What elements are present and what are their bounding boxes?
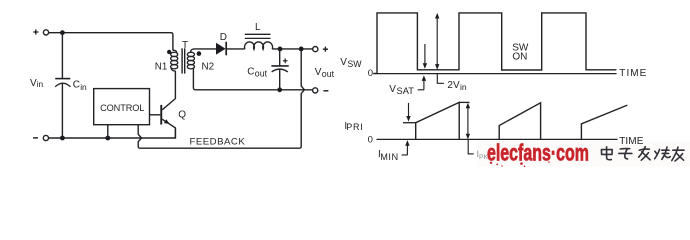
svg-text:TIME: TIME — [619, 68, 647, 79]
arrow VSAT lower — [423, 80, 425, 90]
svg-text:L: L — [255, 22, 261, 33]
svg-text:FEEDBACK: FEEDBACK — [190, 137, 246, 148]
wire Cin top — [61, 33, 63, 79]
arrow VSAT upper — [424, 44, 426, 65]
arrow IPK span — [467, 107, 469, 136]
transformer secondary N2 winding — [187, 52, 194, 69]
watermark band — [478, 141, 690, 167]
arrow 2VIN — [436, 17, 438, 67]
svg-text:C: C — [247, 66, 254, 77]
svg-text:V: V — [340, 57, 347, 68]
axis IPRI time — [377, 138, 618, 140]
control block U1 — [94, 89, 150, 125]
wire bottom rail — [49, 128, 176, 138]
logo chinese char zi — [619, 149, 632, 159]
node junction top of Cin — [60, 30, 65, 35]
input minus terminal — [33, 137, 38, 139]
output plus terminal — [313, 47, 318, 52]
reference line peak level — [459, 101, 469, 103]
svg-text:ON: ON — [512, 52, 527, 63]
leader VSAT — [418, 89, 424, 91]
svg-text:D: D — [220, 32, 227, 43]
arrow IMIN upper — [408, 103, 410, 117]
waveform VSW trace — [373, 13, 616, 74]
wire feedback with hops — [138, 49, 304, 148]
logo chinese char shao — [655, 147, 671, 159]
wire secondary top to diode — [191, 49, 216, 53]
input plus terminal — [33, 29, 38, 34]
arrow IMIN lower — [406, 144, 408, 155]
logo splash dots — [490, 162, 492, 164]
transistor Q1 — [160, 71, 175, 138]
logo chinese char you — [672, 147, 684, 161]
svg-text:N1: N1 — [155, 62, 168, 73]
transformer primary N1 winding — [171, 50, 178, 71]
wire base — [150, 114, 161, 116]
leader IPK — [468, 140, 474, 154]
svg-text:V: V — [315, 67, 322, 78]
svg-text:CONTROL: CONTROL — [100, 103, 144, 113]
node junction control pin — [105, 136, 110, 141]
svg-text:in: in — [37, 79, 44, 89]
node junction Cin bottom — [60, 136, 65, 141]
wire control to bottom rail — [107, 125, 109, 138]
wire secondary bottom — [193, 68, 312, 90]
node junction Cout top — [278, 47, 283, 52]
svg-text:in: in — [80, 82, 87, 92]
wire output top — [272, 48, 313, 50]
waveform IPRI trace — [416, 102, 628, 139]
svg-text:MIN: MIN — [380, 152, 399, 162]
inductor L1 — [245, 34, 273, 49]
svg-text:out: out — [322, 69, 335, 79]
svg-text:Q: Q — [178, 110, 186, 121]
reference line IMIN level — [403, 122, 416, 124]
svg-text:0: 0 — [368, 68, 373, 79]
svg-text:SAT: SAT — [397, 86, 415, 96]
capacitor C2 Cout — [279, 49, 281, 66]
svg-text:PRI: PRI — [346, 122, 363, 132]
wire Cin bottom — [61, 84, 63, 138]
svg-text:0: 0 — [368, 134, 373, 145]
svg-text:2V: 2V — [447, 80, 460, 91]
svg-text:out: out — [255, 68, 268, 78]
node junction Cout bottom — [277, 87, 282, 92]
svg-text:elecfans·com: elecfans·com — [487, 139, 589, 165]
leader 2VIN — [437, 74, 444, 84]
transformer core — [181, 48, 183, 73]
wire top rail — [49, 33, 173, 51]
logo chinese char fa — [639, 147, 650, 161]
phase dot N1 — [167, 50, 171, 54]
svg-text:V: V — [389, 84, 396, 95]
polarity plus Cout — [283, 59, 288, 64]
svg-text:TIME: TIME — [619, 136, 644, 147]
svg-text:SW: SW — [347, 59, 362, 69]
diode D1 — [216, 43, 226, 55]
wire diode to inductor — [226, 48, 244, 50]
output minus terminal — [313, 88, 318, 93]
svg-text:N2: N2 — [202, 62, 215, 73]
phase dot N2 — [197, 51, 202, 56]
svg-text:in: in — [460, 82, 467, 92]
logo chinese char dian — [601, 147, 612, 160]
leader IMIN — [402, 154, 408, 156]
svg-text:C: C — [73, 80, 80, 91]
node junction feedback top — [299, 47, 304, 52]
axis VSW time — [373, 73, 616, 75]
capacitor C1 Cin — [55, 79, 70, 87]
